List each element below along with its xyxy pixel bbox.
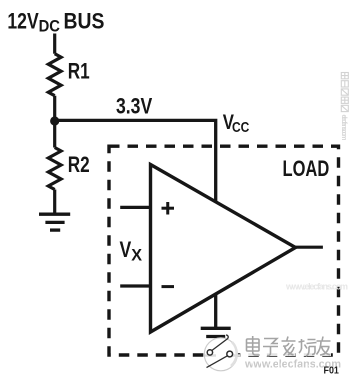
op-amp plus input symbol [162, 202, 175, 215]
char 子 [263, 339, 278, 356]
wire from 12V bus to R1 [53, 34, 56, 54]
node VCC label [223, 111, 250, 135]
svg-text:R1: R1 [68, 60, 90, 85]
char 发 [282, 337, 296, 356]
watermark chinese characters 电子发烧友 [245, 337, 331, 357]
ground below op-amp [201, 328, 231, 344]
node 12VDC BUS label [7, 9, 104, 35]
wire minus input stub [120, 284, 150, 287]
node VX label [120, 238, 143, 264]
svg-text:elecfans.com: elecfans.com [340, 115, 347, 141]
svg-text:LOAD: LOAD [283, 157, 330, 182]
svg-text:CC: CC [232, 119, 249, 136]
wire R2 to ground [53, 190, 56, 214]
watermark vertical elecfans text right edge [340, 73, 349, 141]
svg-text:12V: 12V [7, 10, 39, 34]
svg-text:DC: DC [39, 18, 61, 36]
wire op-amp to ground [214, 294, 217, 327]
node A junction dot [50, 116, 59, 125]
svg-text:R2: R2 [68, 153, 90, 178]
watermark elecfans logo circle [204, 335, 240, 371]
op-amp U1 [151, 165, 296, 333]
op-amp minus input symbol [162, 285, 175, 288]
svg-text:V: V [120, 238, 132, 262]
svg-text:www.elecfans.com: www.elecfans.com [285, 282, 348, 292]
svg-text:F01: F01 [324, 365, 340, 377]
dashed LOAD box [109, 146, 339, 355]
char 电 [247, 339, 260, 351]
resistor R1 [48, 54, 89, 96]
svg-text:X: X [131, 245, 142, 264]
wire node A to R2 [53, 121, 56, 148]
ground below R2 [39, 214, 70, 230]
wire plus input stub [120, 206, 150, 209]
svg-text:BUS: BUS [64, 9, 105, 33]
char 友 [317, 337, 331, 356]
wire R1 to node A [53, 96, 56, 121]
wire node A to VCC corner and down to op-amp [55, 120, 216, 201]
char 烧 [299, 339, 317, 356]
svg-text:3.3V: 3.3V [116, 95, 153, 119]
resistor R2 [48, 148, 89, 190]
wire output from op-amp [296, 246, 323, 249]
